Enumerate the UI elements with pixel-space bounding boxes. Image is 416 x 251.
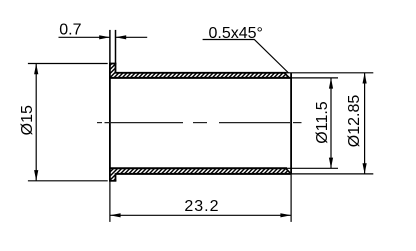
bore bottom line bbox=[110, 167, 287, 169]
outer surface bottom line bbox=[116, 173, 292, 175]
section hatch: top wall + flange (cross-section) bbox=[110, 64, 289, 78]
bore top line bbox=[110, 77, 291, 79]
dim D12.85: top extension line bbox=[286, 72, 373, 74]
dim D11.5: top extension line bbox=[289, 77, 338, 79]
svg-text:Ø15: Ø15 bbox=[19, 105, 36, 135]
chamfer label 0.5x45deg: leader line bbox=[203, 40, 289, 74]
flange right edge, top bbox=[115, 64, 117, 74]
chamfer edge bottom bbox=[286, 168, 290, 173]
svg-text:0.7: 0.7 bbox=[59, 22, 81, 39]
right end face line bbox=[290, 73, 292, 174]
dim D12.85: dimension line with arrows bbox=[363, 73, 367, 174]
section hatch: bottom wall + flange (cross-section) bbox=[110, 168, 290, 181]
svg-text:23.2: 23.2 bbox=[184, 198, 219, 215]
center line (dash-dot axis) bbox=[97, 122, 302, 124]
dim D15: bottom extension line bbox=[28, 180, 108, 182]
dim D11.5: dimension line with arrows bbox=[329, 78, 333, 168]
dim D12.85: bottom extension line bbox=[291, 173, 373, 175]
svg-text:Ø12.85: Ø12.85 bbox=[346, 95, 363, 148]
flange bottom edge bbox=[109, 180, 116, 182]
dim 0.7: right dimension line with arrow bbox=[116, 35, 148, 39]
flange left edge (body left outline) bbox=[109, 63, 111, 182]
dim 23.2: right extension line bbox=[290, 174, 292, 222]
outer surface top line bbox=[116, 72, 287, 74]
dim 0.7: left extension line bbox=[109, 30, 111, 63]
dim 0.7: left dimension line with arrow bbox=[59, 35, 110, 39]
dim 23.2: left extension line bbox=[109, 182, 111, 222]
svg-text:0.5x45°: 0.5x45° bbox=[209, 25, 263, 42]
svg-text:Ø11.5: Ø11.5 bbox=[314, 101, 331, 144]
dim 23.2: dimension line with arrows bbox=[110, 213, 291, 217]
dim 0.7: right extension line bbox=[115, 30, 117, 64]
dim D11.5: bottom extension line bbox=[287, 167, 338, 169]
dim D15: top extension line bbox=[28, 63, 108, 65]
dim D15: dimension line with arrows bbox=[34, 64, 38, 181]
chamfer edge top 0.5x45 bbox=[284, 73, 288, 78]
flange right edge, bottom bbox=[115, 173, 117, 181]
flange top edge bbox=[109, 63, 116, 65]
